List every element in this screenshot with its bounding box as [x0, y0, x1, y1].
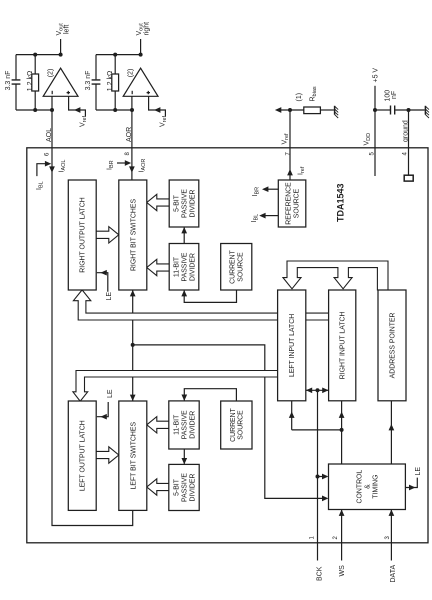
wire capacitor bottom lead (left) — [15, 85, 17, 111]
wire CONTROL to ADDRESS POINTER — [390, 401, 392, 464]
op-amp minus input marker (right) — [131, 91, 133, 94]
wire to Vout left — [60, 39, 62, 55]
arrow I_ref current direction — [287, 169, 293, 175]
svg-text:5-BIT: 5-BIT — [174, 194, 181, 212]
svg-text:RIGHT BIT SWITCHES: RIGHT BIT SWITCHES — [130, 199, 137, 272]
wire resistor bottom lead (left) — [34, 91, 36, 110]
wire 100nF to ground — [395, 109, 425, 111]
block 11-BIT PASSIVE DIVIDER (bottom) — [169, 401, 199, 449]
junction resistor/bottom rail (right) — [113, 108, 117, 112]
svg-text:DIVIDER: DIVIDER — [189, 411, 196, 439]
resistor 1.2 kOhm body (left) — [32, 74, 39, 91]
arrow toward ADDRESS POINTER — [389, 424, 395, 430]
svg-text:11-BIT: 11-BIT — [174, 414, 181, 435]
arrow LE into LEFT OUTPUT LATCH — [100, 414, 106, 420]
arrow into 11-bit passive divider (top) — [181, 290, 187, 296]
svg-text:left: left — [64, 25, 71, 34]
wire capacitor top lead (right) — [95, 55, 97, 80]
wire feedback bottom rail (right) — [96, 109, 132, 111]
arrow into CONTROL left edge (lower) — [322, 496, 328, 502]
wire +5V supply through pin 5 V_DD — [374, 86, 376, 176]
wire Vref node to Rbias — [280, 109, 304, 111]
wire latch-load branch to LEFT INPUT LATCH — [292, 401, 342, 430]
hollow bus LEFT INPUT LATCH to LEFT OUTPUT LATCH — [73, 371, 278, 402]
svg-text:DIVIDER: DIVIDER — [189, 190, 196, 218]
arrow toward LEFT INPUT LATCH — [289, 412, 295, 418]
arrow I_BL out — [259, 213, 265, 219]
arrow into RIGHT INPUT LATCH left edge — [322, 387, 328, 393]
svg-text:PASSIVE: PASSIVE — [182, 189, 189, 218]
block arrow 5-bit divider to RIGHT BIT SWITCHES — [147, 194, 169, 210]
junction Vref node — [288, 108, 292, 112]
wire AOL pin 6 down left side to LEFT BIT SWITCHES — [52, 96, 133, 525]
junction bias rail tap — [131, 343, 135, 347]
wire resistor top lead (right) — [114, 55, 116, 74]
wire WS pin 2 to CONTROL — [341, 510, 343, 561]
block CONTROL & TIMING — [329, 464, 406, 510]
svg-text:DATA: DATA — [390, 565, 397, 583]
arrow I_AOR current direction — [129, 166, 135, 172]
arrow into 5-bit passive divider (bottom) — [181, 458, 187, 464]
wire I_BR stub at AOR — [117, 162, 125, 164]
arrow into 5-bit passive divider (top) — [181, 227, 187, 233]
wire CURRENT SOURCE (bottom) to 11-bit divider — [184, 389, 236, 401]
svg-text:PASSIVE: PASSIVE — [182, 252, 189, 281]
svg-text:5-BIT: 5-BIT — [174, 478, 181, 496]
block LEFT BIT SWITCHES — [119, 401, 147, 510]
op-amp triangle (2) right — [123, 68, 158, 96]
svg-text:3.3 nF: 3.3 nF — [85, 71, 92, 91]
svg-text:(2): (2) — [47, 69, 54, 78]
block 11-BIT PASSIVE DIVIDER (top) — [169, 244, 199, 291]
svg-text:(1): (1) — [296, 93, 303, 102]
svg-text:SOURCE: SOURCE — [238, 410, 245, 440]
ground symbol at Rbias — [334, 106, 336, 115]
hollow bus ADDRESS POINTER to input latches — [283, 261, 388, 290]
wire plus input to Vref (left) — [69, 96, 86, 116]
capacitor 100 nF plates — [391, 106, 395, 115]
capacitor 3.3 nF plates (left) — [12, 80, 21, 84]
block ADDRESS POINTER — [378, 290, 406, 401]
junction +5V node — [373, 108, 377, 112]
wire ground pin 4 — [408, 110, 410, 175]
junction minus input/bottom rail (right) — [130, 108, 134, 112]
wire capacitor bottom lead (right) — [95, 85, 97, 111]
svg-text:DIVIDER: DIVIDER — [189, 474, 196, 502]
svg-text:CURRENT: CURRENT — [230, 249, 237, 283]
svg-text:PASSIVE: PASSIVE — [182, 410, 189, 439]
svg-text:REFERENCE: REFERENCE — [286, 182, 293, 225]
junction latch-load branch — [340, 428, 344, 432]
block arrow LEFT OUTPUT LATCH to LEFT BIT SWITCHES — [96, 447, 119, 463]
svg-text:SOURCE: SOURCE — [238, 252, 245, 282]
svg-text:1.2 kΩ: 1.2 kΩ — [107, 71, 114, 91]
svg-text:CURRENT: CURRENT — [230, 407, 237, 441]
block LEFT INPUT LATCH — [278, 290, 306, 401]
arrow toward RIGHT INPUT LATCH — [339, 412, 345, 418]
wire I_BR from REFERENCE SOURCE — [268, 188, 278, 190]
svg-text:CONTROL: CONTROL — [357, 470, 364, 504]
op-amp plus input marker (right) — [147, 91, 150, 94]
svg-text:nF: nF — [391, 91, 398, 99]
wire CONTROL to RIGHT INPUT LATCH — [341, 401, 343, 464]
block CURRENT SOURCE (top) — [221, 244, 252, 291]
wire bias rail RIGHT BIT SWITCHES to LEFT BIT SWITCHES — [132, 290, 134, 401]
svg-text:AOR: AOR — [126, 127, 133, 142]
block arrow RIGHT OUTPUT LATCH to RIGHT BIT SWITCHES — [96, 227, 119, 243]
block arrow 5-bit divider to LEFT BIT SWITCHES — [147, 479, 169, 495]
wire DATA pin 3 to CONTROL — [390, 510, 392, 561]
wire CURRENT SOURCE (top) to 11-bit divider — [184, 290, 236, 302]
resistor 1.2 kOhm body (right) — [112, 74, 119, 91]
arrow into 11-bit passive divider (bottom) — [181, 395, 187, 401]
ground symbol at 100nF — [424, 106, 426, 115]
junction resistor/top rail (right) — [113, 53, 117, 57]
junction resistor/top rail (left) — [33, 53, 37, 57]
wire bias rail tap to CONTROL block — [133, 345, 323, 499]
wire capacitor top lead (left) — [15, 55, 17, 80]
block CURRENT SOURCE (bottom) — [221, 401, 252, 449]
svg-text:LEFT OUTPUT LATCH: LEFT OUTPUT LATCH — [80, 420, 87, 491]
arrow Vref into plus input (left) — [74, 107, 80, 113]
wire resistor bottom lead (right) — [114, 91, 116, 110]
wire LE output of CONTROL — [405, 478, 417, 488]
wire 11-bit to 5-bit divider (top) — [183, 228, 185, 244]
wire feedback top rail (right op-amp) — [96, 54, 141, 56]
block RIGHT INPUT LATCH — [329, 290, 356, 401]
arrow WS into CONTROL bottom — [339, 510, 345, 516]
arrow I_BR into AOR line — [125, 160, 131, 166]
arrow I_BL into AOL line — [45, 161, 51, 167]
resistor Rbias body (1) — [304, 107, 321, 114]
substrate terminal block at pin 4 — [404, 175, 413, 181]
junction Vout/top rail (left) — [59, 53, 63, 57]
svg-text:BCK: BCK — [317, 566, 324, 581]
hollow bus RIGHT INPUT LATCH to RIGHT OUTPUT LATCH — [73, 290, 328, 320]
svg-text:RIGHT INPUT LATCH: RIGHT INPUT LATCH — [340, 311, 347, 379]
junction BCK top — [316, 388, 320, 392]
junction Vout/top rail (right) — [139, 53, 143, 57]
arrow into CONTROL left edge (upper) — [322, 474, 328, 480]
block REFERENCE SOURCE — [278, 180, 306, 227]
wire supply to 100nF capacitor — [375, 109, 390, 111]
svg-text:&: & — [365, 484, 372, 489]
junction BCK/CONTROL branch — [316, 475, 320, 479]
wire 11-bit to 5-bit divider (bottom) — [183, 449, 185, 464]
op-amp plus input marker (left) — [67, 91, 70, 94]
wire BCK branch to CONTROL — [318, 476, 323, 478]
svg-text:DIVIDER: DIVIDER — [189, 253, 196, 281]
svg-text:LE: LE — [415, 467, 422, 476]
wire AOR pin 8 to RIGHT BIT SWITCHES — [131, 96, 133, 180]
block arrow 11-bit divider to RIGHT BIT SWITCHES — [147, 259, 169, 275]
block LEFT OUTPUT LATCH — [68, 401, 96, 510]
arrow LE into RIGHT OUTPUT LATCH — [100, 270, 106, 276]
svg-text:PASSIVE: PASSIVE — [182, 473, 189, 502]
block 5-BIT PASSIVE DIVIDER (bottom) — [169, 464, 199, 510]
wire BCK pin 1 up to input latches — [317, 390, 319, 560]
svg-text:ground: ground — [403, 120, 410, 142]
svg-text:LEFT BIT SWITCHES: LEFT BIT SWITCHES — [130, 422, 137, 490]
op-amp triangle (2) left — [43, 68, 78, 96]
wire Rbias to ground — [320, 109, 334, 111]
svg-text:11-BIT: 11-BIT — [174, 256, 181, 277]
svg-text:+5 V: +5 V — [373, 68, 380, 83]
svg-text:RIGHT OUTPUT LATCH: RIGHT OUTPUT LATCH — [80, 197, 87, 272]
svg-text:right: right — [144, 22, 151, 36]
svg-text:WS: WS — [339, 565, 346, 577]
arrow into LEFT BIT SWITCHES top — [130, 395, 136, 401]
svg-text:ADDRESS POINTER: ADDRESS POINTER — [390, 312, 397, 378]
wire LE into RIGHT OUTPUT LATCH — [97, 273, 108, 292]
capacitor 3.3 nF plates (right) — [92, 80, 101, 84]
arrow LE out of CONTROL — [409, 485, 415, 491]
wire Vref pin 7 to REFERENCE SOURCE — [289, 110, 291, 180]
wire plus input to Vref (right) — [149, 96, 166, 116]
op-amp minus input marker (left) — [51, 91, 53, 94]
wire resistor top lead (left) — [34, 55, 36, 74]
wire I_BL from REFERENCE SOURCE — [265, 215, 278, 217]
junction resistor/bottom rail (left) — [33, 108, 37, 112]
block arrow 11-bit divider to LEFT BIT SWITCHES — [147, 417, 169, 433]
wire LE into LEFT OUTPUT LATCH — [97, 402, 108, 417]
block RIGHT BIT SWITCHES — [119, 180, 147, 290]
svg-text:1.2 kΩ: 1.2 kΩ — [27, 71, 34, 91]
wire clock between LEFT and RIGHT INPUT LATCH — [306, 389, 329, 391]
arrow into RIGHT BIT SWITCHES bottom — [130, 290, 136, 296]
wire feedback bottom rail (left) — [16, 109, 52, 111]
svg-text:TDA1543: TDA1543 — [336, 183, 346, 222]
arrow to Vref rail — [275, 107, 281, 113]
svg-text:3.3 nF: 3.3 nF — [5, 71, 12, 91]
arrow into LEFT INPUT LATCH right edge — [306, 387, 312, 393]
svg-text:AOL: AOL — [46, 128, 53, 142]
junction ground node — [407, 108, 411, 112]
wire feedback top rail (left op-amp) — [16, 54, 61, 56]
svg-text:LEFT INPUT LATCH: LEFT INPUT LATCH — [289, 314, 296, 377]
arrow I_AOL current direction — [49, 166, 55, 172]
svg-text:LE: LE — [106, 292, 113, 301]
wire to Vout right — [140, 39, 142, 55]
svg-text:SOURCE: SOURCE — [293, 188, 300, 218]
wire I_BL stub at AOL — [37, 164, 47, 176]
block RIGHT OUTPUT LATCH — [68, 180, 96, 290]
arrow Vref into plus input (right) — [154, 107, 160, 113]
arrow DATA into CONTROL bottom — [389, 510, 395, 516]
arrow I_BR out — [262, 186, 268, 192]
svg-text:LE: LE — [107, 389, 114, 398]
svg-text:(2): (2) — [127, 69, 134, 78]
junction minus input/bottom rail (left) — [50, 108, 54, 112]
chip boundary TDA1543 outline — [27, 148, 428, 543]
block 5-BIT PASSIVE DIVIDER (top) — [169, 180, 199, 227]
svg-text:TIMING: TIMING — [372, 475, 379, 499]
